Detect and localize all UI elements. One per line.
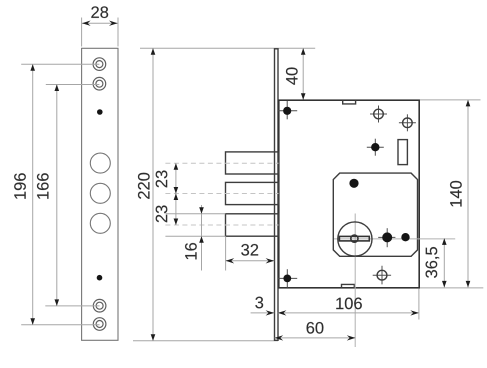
cylinder vertical centerline xyxy=(354,214,356,348)
key slot bar xyxy=(339,236,369,241)
bolt centerline 1 xyxy=(165,162,278,164)
bolt centerline 2 xyxy=(165,193,278,195)
top notch xyxy=(343,100,356,104)
bolt hole 2 xyxy=(90,183,110,203)
dim 23 line xyxy=(175,163,177,225)
mark dot top-left with cross xyxy=(286,101,288,120)
mark dot bottom-left with cross xyxy=(286,269,288,287)
screw hole bottom 2 xyxy=(93,318,106,331)
bolt centerline 3 xyxy=(165,224,278,226)
dot right of cylinder with cross xyxy=(386,228,388,247)
bottom notch xyxy=(342,284,355,287)
screw hole top 1 xyxy=(93,58,106,71)
dim 166 text xyxy=(37,173,49,199)
dot on escutcheon xyxy=(349,179,358,188)
crosshair hole 1 xyxy=(378,106,380,123)
dim 40 line xyxy=(302,48,304,100)
bolt 3 xyxy=(226,214,279,236)
dim 166 leader bottom xyxy=(45,305,99,307)
screw hole bottom 1 xyxy=(93,299,106,312)
dim 166 leader top xyxy=(46,84,100,86)
dim 196 line xyxy=(32,64,34,325)
dim 28 extension lines xyxy=(81,18,83,47)
dot far right xyxy=(401,233,409,241)
dim 3 line xyxy=(251,312,275,314)
crosshair hole 2 xyxy=(406,114,408,131)
dim 106 line xyxy=(278,312,419,314)
dim 60 line xyxy=(275,337,356,339)
dim 23 text upper xyxy=(156,171,168,188)
dim 32 line xyxy=(226,260,275,262)
bolt 1 xyxy=(226,152,279,174)
bolt hole 3 xyxy=(90,213,110,233)
dim 140 line xyxy=(467,100,469,288)
dim 196 leader top xyxy=(21,63,99,65)
dim 36,5 line xyxy=(443,238,445,287)
faceplate front view xyxy=(82,48,118,340)
rect cutout xyxy=(398,140,407,165)
dim 106 text xyxy=(336,298,362,310)
dim 140 extension top xyxy=(420,99,481,101)
screw hole top 2 xyxy=(93,77,106,90)
dim 32 extension xyxy=(225,236,227,270)
dim 16 extension top xyxy=(165,213,225,215)
dim 40 text xyxy=(286,67,298,84)
faceplate side strip xyxy=(275,49,279,341)
dim 23 text lower xyxy=(156,205,168,222)
dim 140 text xyxy=(450,181,462,207)
crosshair hole 3 xyxy=(381,266,383,285)
bolt hole 1 xyxy=(90,153,110,173)
dim 16 text xyxy=(185,243,197,259)
dim 196 text xyxy=(14,173,26,199)
pin dot top xyxy=(97,109,103,115)
cylinder horizontal centerline xyxy=(334,238,455,240)
dim 60 text xyxy=(307,322,324,334)
dim 32 text xyxy=(241,244,258,256)
pin dot bottom xyxy=(97,275,103,281)
dim 28 line xyxy=(82,22,118,24)
dim 166 line xyxy=(56,85,58,306)
key slot boss xyxy=(351,235,358,242)
dim 16 extension bottom xyxy=(165,235,225,237)
bottom extension line xyxy=(133,340,278,342)
mark dot with cross xyxy=(374,139,376,156)
dim 220 text xyxy=(138,173,150,199)
lock body xyxy=(279,100,419,288)
dim 28 text xyxy=(91,6,108,18)
escutcheon octagon xyxy=(333,173,417,256)
dim 106 extension right xyxy=(418,289,420,320)
dim 36,5 text xyxy=(426,247,440,278)
top extension line xyxy=(140,47,315,49)
dim 140 extension bottom xyxy=(420,287,483,289)
dim 16 line xyxy=(201,205,203,271)
bolt 2 xyxy=(226,182,279,204)
dim 196 leader bottom xyxy=(21,324,99,326)
key cylinder xyxy=(338,222,372,256)
dim 3 text xyxy=(255,297,263,309)
dim 220 line xyxy=(152,48,154,341)
